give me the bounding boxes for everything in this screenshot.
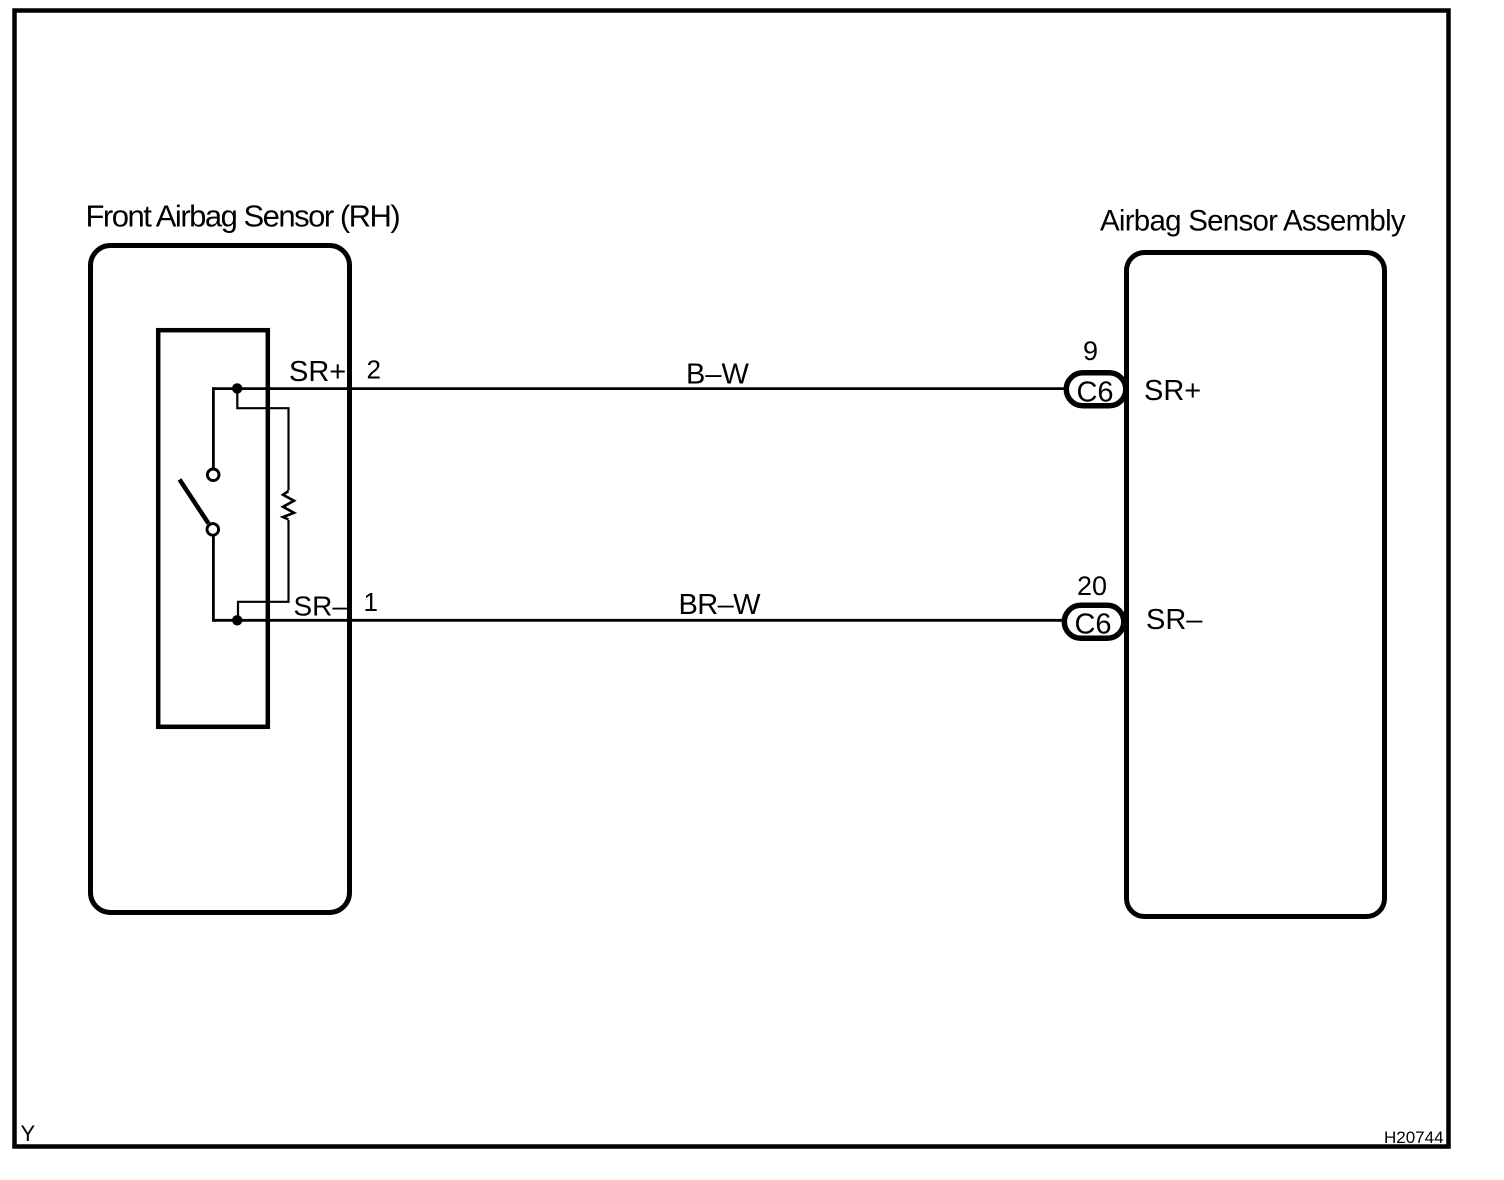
connector C6 pin 20	[1064, 605, 1124, 638]
svg-text:C6: C6	[1074, 609, 1111, 641]
svg-text:1: 1	[364, 587, 378, 617]
wire resistor branch upper	[237, 389, 288, 491]
connector C6 pin 9	[1066, 373, 1126, 406]
wire switch upper leg	[212, 387, 215, 469]
svg-text:Front Airbag Sensor (RH): Front Airbag Sensor (RH)	[86, 199, 400, 234]
wire B-W (SR+ line)	[213, 387, 1066, 390]
svg-text:BR–W: BR–W	[679, 589, 762, 621]
svg-text:SR+: SR+	[289, 356, 346, 388]
svg-text:SR+: SR+	[1144, 375, 1201, 407]
svg-text:2: 2	[367, 355, 381, 385]
switch contact lower	[207, 524, 219, 536]
svg-text:SR–: SR–	[294, 591, 349, 622]
node SR+ junction	[232, 383, 242, 393]
wire resistor branch lower	[238, 520, 289, 616]
node SR- junction	[232, 615, 242, 625]
wire switch lower leg	[212, 535, 215, 621]
svg-text:B–W: B–W	[686, 359, 749, 391]
svg-text:SR–: SR–	[1146, 604, 1203, 636]
sensor internal block	[158, 330, 268, 727]
svg-text:20: 20	[1077, 571, 1107, 601]
svg-text:Airbag Sensor Assembly: Airbag Sensor Assembly	[1100, 205, 1406, 238]
svg-text:H20744: H20744	[1384, 1128, 1444, 1147]
component Front Airbag Sensor (RH) box	[91, 246, 350, 913]
switch contact upper	[207, 469, 219, 481]
resistor R	[283, 491, 294, 520]
svg-text:C6: C6	[1076, 377, 1113, 409]
svg-text:Y: Y	[21, 1121, 36, 1146]
component Airbag Sensor Assembly box	[1127, 253, 1385, 917]
wire BR-W (SR- line)	[213, 619, 1064, 622]
svg-text:9: 9	[1083, 336, 1098, 366]
switch lever	[180, 480, 209, 524]
